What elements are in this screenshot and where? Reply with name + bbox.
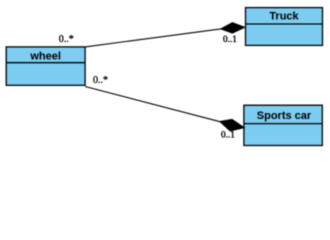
- composition diamond at Sports car: [220, 119, 244, 131]
- composition diamond at Truck: [221, 23, 245, 33]
- svg-text:Sports car: Sports car: [257, 110, 312, 122]
- svg-text:0..*: 0..*: [59, 34, 74, 45]
- svg-text:wheel: wheel: [29, 50, 61, 62]
- wire: association wheel-Truck: [85, 29, 221, 47]
- class Sports car: [244, 105, 322, 145]
- class Truck: [246, 8, 323, 46]
- svg-text:0..1: 0..1: [223, 34, 237, 44]
- wire: association wheel-Sports car: [85, 87, 220, 122]
- svg-text:0..*: 0..*: [93, 75, 108, 86]
- svg-text:0..1: 0..1: [221, 129, 235, 139]
- class wheel: [6, 47, 85, 85]
- svg-text:Truck: Truck: [269, 11, 299, 23]
